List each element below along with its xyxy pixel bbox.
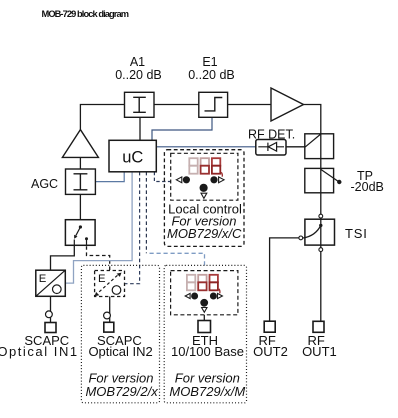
svg-text:MOB729/x/C: MOB729/x/C (167, 226, 242, 241)
AGC attenuator (66, 169, 96, 194)
wire amp V2 output to coupler column (304, 105, 321, 134)
wire RF DET output to uC (156, 146, 256, 148)
digit 3 (lit) (212, 158, 220, 166)
decimal tail (221, 172, 222, 176)
fiber connector IN2 (104, 312, 111, 319)
wire optional O/E to fiber connector IN2 (109, 297, 111, 323)
RF DET detector (256, 140, 286, 156)
svg-text:RF DET.: RF DET. (248, 127, 295, 141)
microcontroller uC (109, 140, 156, 172)
digit 3 (lit) (210, 275, 218, 283)
digit 1 (dim) (189, 158, 197, 174)
fiber connector IN1 (46, 311, 53, 318)
coupler DC1 (RF detector tap) (305, 134, 334, 159)
svg-text:MOB-729 block diagram: MOB-729 block diagram (42, 9, 129, 19)
input switch S1 (65, 220, 95, 246)
7-segment display (local control) (189, 158, 222, 177)
decimal tail (219, 289, 220, 293)
svg-text:0..20 dB: 0..20 dB (115, 68, 162, 82)
svg-text:E: E (39, 273, 47, 285)
wire uC to E1 control (152, 118, 212, 141)
pushbuttons (ETH module) (185, 293, 222, 313)
wire uC to AGC control (95, 172, 124, 182)
svg-text:-20dB: -20dB (351, 180, 384, 194)
digit 2 (half lit) (201, 158, 209, 166)
svg-text:E: E (98, 273, 106, 285)
local control display module (dashed) (171, 153, 238, 200)
svg-text:A1: A1 (130, 55, 145, 69)
7-segment display (ETH module) (187, 275, 220, 294)
digit 1 (dim) (187, 275, 195, 291)
wire A1 to E1 (154, 104, 199, 106)
svg-text:0..20 dB: 0..20 dB (188, 68, 235, 82)
equalizer E1 (199, 92, 228, 117)
connector RF OUT1 (313, 321, 324, 332)
version box MOB729/x/M (164, 265, 246, 402)
pushbuttons (local control) (176, 176, 224, 198)
connector RF OUT2 (264, 321, 275, 332)
O/E converter U2 (36, 270, 66, 296)
wire switch right contact to optional O/E (dashed) (87, 240, 110, 271)
svg-text:Optical IN1: Optical IN1 (0, 344, 79, 359)
wire A1 output to uC (139, 117, 141, 140)
local control box (164, 150, 244, 247)
wire uC to input switch control (65, 172, 132, 283)
attenuator A1 (125, 92, 155, 117)
blue control wires from uC (65, 118, 256, 284)
connector SCAPC IN1 (45, 323, 56, 333)
svg-text:E1: E1 (202, 55, 217, 69)
test switch TSI (299, 214, 335, 251)
wire A1 input from top-left corner to amp V1 apex (80, 105, 124, 130)
wire amp V1 base to AGC attenuator (79, 157, 81, 169)
wire uC to optional O/E module (dashed) (125, 172, 140, 284)
wire TSI through segment (320, 218, 322, 248)
svg-text:OUT2: OUT2 (253, 344, 288, 359)
svg-text:MOB729/2/x: MOB729/2/x (85, 384, 158, 399)
wire TSI left terminal to RF OUT2 (270, 238, 299, 321)
svg-text:TSI: TSI (345, 226, 368, 241)
svg-text:OUT1: OUT1 (302, 344, 337, 359)
version box MOB729/2/x (81, 265, 159, 402)
wire switch left contact to O/E converter U2 (51, 239, 75, 270)
wire TSI to RF OUT1 (320, 252, 322, 322)
svg-text:MOB729/x/M: MOB729/x/M (169, 384, 245, 399)
wire RF DET to coupler DC1 (286, 146, 305, 148)
wire AGC attenuator to switch pole (79, 194, 81, 227)
amplifier V1 (input stage) (62, 130, 98, 158)
optional O/E module (dashed) (95, 271, 125, 297)
digit 2 (half lit) (198, 275, 206, 283)
wire O/E U2 to fiber connector IN1 (50, 296, 52, 322)
amplifier V2 (output stage) (271, 88, 304, 121)
wire ETH display to ETH connector (203, 315, 205, 321)
svg-text:Optical IN2: Optical IN2 (88, 344, 152, 359)
wire main RF vertical through couplers to TSI (320, 134, 322, 214)
svg-text:AGC: AGC (31, 177, 58, 191)
wire uC to local control module (dashed) (154, 172, 170, 182)
wire E1 to amp V2 (228, 104, 271, 106)
connector ETH (198, 321, 211, 333)
svg-text:uC: uC (122, 148, 143, 166)
wire uC to ETH module (dashed) (145, 172, 147, 254)
connector SCAPC IN2 (104, 322, 114, 332)
coupler DC2 (test point tap) (305, 168, 342, 192)
svg-text:10/100 Base: 10/100 Base (171, 344, 244, 359)
ETH display module (dashed) (171, 271, 238, 315)
